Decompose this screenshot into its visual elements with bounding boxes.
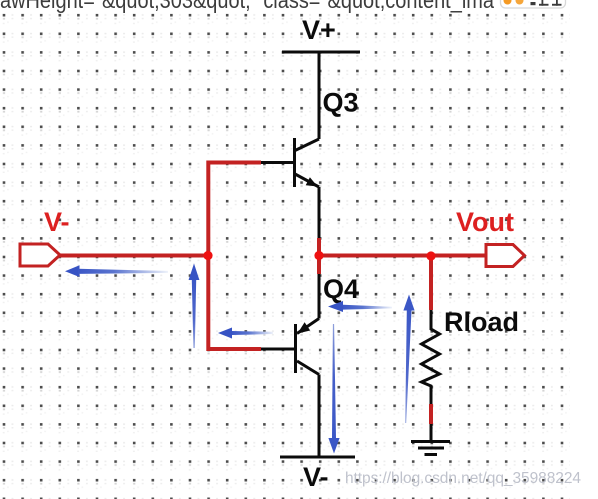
svg-text:awHeight="&quot;303&quot;" cla: awHeight="&quot;303&quot;" class="&quot;… xyxy=(0,0,494,13)
svg-text:Q3: Q3 xyxy=(323,88,359,118)
svg-text:https://blog.csdn.net/qq_35988: https://blog.csdn.net/qq_35988224 xyxy=(345,470,581,487)
svg-text:V+: V+ xyxy=(302,15,336,45)
svg-text:Q4: Q4 xyxy=(323,274,359,304)
svg-text:V-: V- xyxy=(44,207,70,237)
svg-text:V-: V- xyxy=(303,462,329,492)
svg-text:Vout: Vout xyxy=(456,207,514,237)
svg-text:Rload: Rload xyxy=(444,307,519,337)
